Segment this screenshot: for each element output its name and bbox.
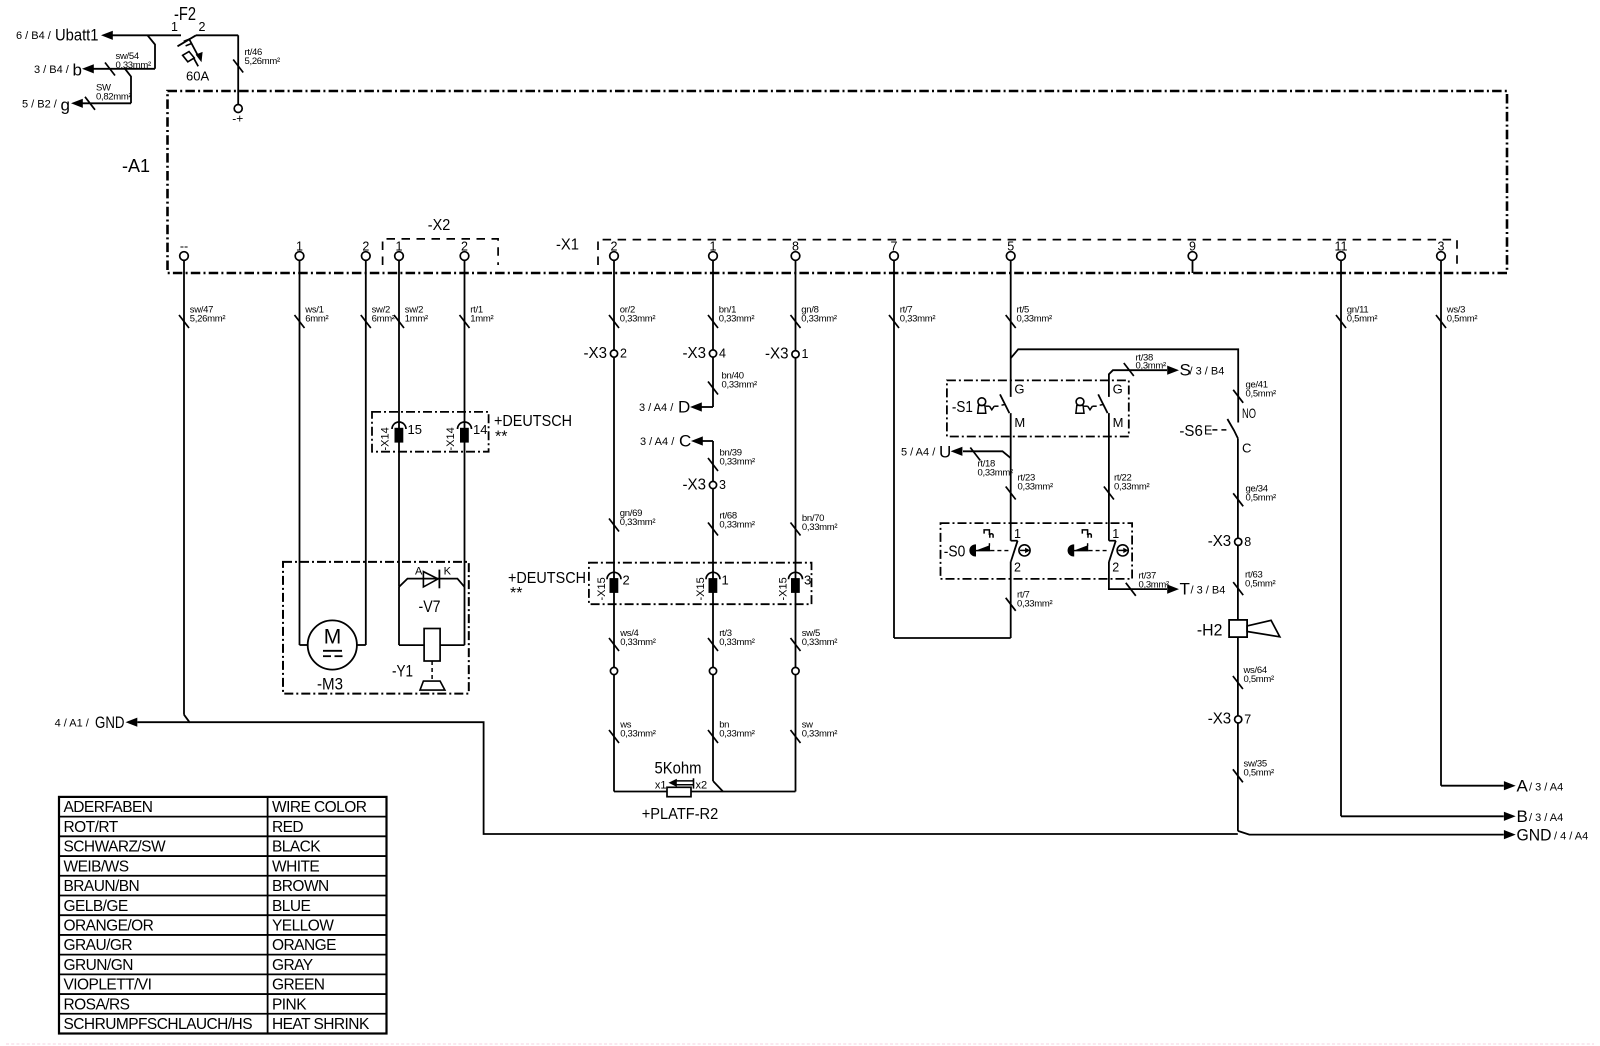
svg-text:0,33mm²: 0,33mm² (1018, 481, 1054, 492)
svg-text:M: M (1014, 415, 1025, 430)
svg-text:0,33mm²: 0,33mm² (802, 522, 838, 533)
svg-text:ROT/RT: ROT/RT (64, 819, 119, 836)
svg-text:2: 2 (362, 240, 369, 254)
svg-text:0,33mm²: 0,33mm² (719, 637, 755, 648)
svg-text:/ 4 / A4: / 4 / A4 (1554, 830, 1588, 842)
svg-text:GELB/GE: GELB/GE (64, 898, 128, 915)
svg-text:M: M (1113, 415, 1124, 430)
svg-text:1: 1 (1014, 527, 1021, 541)
svg-text:15: 15 (408, 422, 422, 437)
svg-text:SCHRUMPFSCHLAUCH/HS: SCHRUMPFSCHLAUCH/HS (64, 1016, 253, 1033)
svg-text:/ 3 / B4: / 3 / B4 (1190, 365, 1225, 377)
svg-text:U: U (939, 443, 951, 462)
svg-text:--: -- (180, 240, 188, 254)
svg-text:-X15: -X15 (695, 577, 707, 600)
svg-text:BLUE: BLUE (272, 898, 311, 915)
svg-text:A: A (415, 565, 423, 577)
svg-text:0,33mm²: 0,33mm² (1017, 313, 1053, 324)
svg-text:C: C (1242, 441, 1251, 456)
svg-text:BLACK: BLACK (272, 839, 321, 856)
svg-text:/ 3 / A4: / 3 / A4 (1529, 812, 1563, 824)
svg-text:3: 3 (804, 572, 811, 587)
svg-text:**: ** (510, 585, 522, 602)
svg-text:PINK: PINK (272, 996, 307, 1013)
svg-text:b: b (73, 61, 82, 80)
svg-text:-X3: -X3 (683, 476, 707, 493)
svg-text:0,33mm²: 0,33mm² (1017, 598, 1053, 609)
svg-text:RED: RED (272, 819, 303, 836)
svg-text:3 / B4 /: 3 / B4 / (34, 64, 70, 76)
svg-text:4: 4 (719, 347, 726, 361)
svg-text:1: 1 (722, 572, 729, 587)
svg-text:ROSA/RS: ROSA/RS (64, 996, 130, 1013)
svg-text:2: 2 (623, 572, 630, 587)
svg-text:HEAT SHRINK: HEAT SHRINK (272, 1016, 370, 1033)
svg-text:0,33mm²: 0,33mm² (722, 379, 758, 390)
svg-text:G: G (1113, 382, 1123, 397)
svg-text:1: 1 (296, 240, 303, 254)
svg-text:0,33mm²: 0,33mm² (900, 313, 936, 324)
svg-text:ORANGE/OR: ORANGE/OR (64, 918, 154, 935)
svg-text:2: 2 (611, 240, 618, 254)
svg-text:GND: GND (1517, 825, 1552, 844)
svg-text:3 / A4 /: 3 / A4 / (640, 436, 675, 448)
svg-text:x2: x2 (696, 780, 708, 792)
svg-text:+PLATF-R2: +PLATF-R2 (642, 806, 719, 823)
svg-text:G: G (1014, 382, 1024, 397)
svg-text:1: 1 (802, 347, 809, 361)
svg-text:0,33mm²: 0,33mm² (720, 456, 756, 467)
svg-text:0,5mm²: 0,5mm² (1347, 313, 1378, 324)
svg-text:0,5mm²: 0,5mm² (1245, 578, 1276, 589)
svg-text:0,33mm²: 0,33mm² (978, 467, 1014, 478)
svg-text:5 / A4 /: 5 / A4 / (901, 447, 936, 459)
svg-text:5: 5 (1007, 240, 1014, 254)
svg-text:M: M (324, 626, 342, 649)
svg-text:0,33mm²: 0,33mm² (620, 637, 656, 648)
svg-text:-X2: -X2 (428, 217, 451, 234)
svg-text:0,33mm²: 0,33mm² (719, 519, 755, 530)
svg-text:T: T (1180, 579, 1190, 598)
svg-text:-S1: -S1 (952, 399, 973, 416)
svg-text:0,33mm²: 0,33mm² (801, 313, 837, 324)
svg-text:A: A (1517, 776, 1529, 795)
svg-text:1: 1 (710, 240, 717, 254)
svg-text:GREEN: GREEN (272, 977, 324, 994)
svg-text:-X1: -X1 (556, 237, 579, 254)
svg-text:0,5mm²: 0,5mm² (1447, 313, 1478, 324)
svg-text:-X14: -X14 (380, 427, 392, 450)
svg-text:1: 1 (396, 240, 403, 254)
svg-text:VIOPLETT/VI: VIOPLETT/VI (64, 977, 152, 994)
svg-text:6 / B4 /: 6 / B4 / (16, 30, 52, 42)
svg-text:-X3: -X3 (683, 345, 707, 362)
svg-text:0,5mm²: 0,5mm² (1244, 674, 1275, 685)
svg-text:4 / A1 /: 4 / A1 / (55, 718, 90, 730)
svg-text:1mm²: 1mm² (470, 313, 493, 324)
svg-text:0,33mm²: 0,33mm² (802, 637, 838, 648)
svg-text:0,33mm²: 0,33mm² (116, 60, 152, 71)
svg-text:8: 8 (792, 240, 799, 254)
svg-text:WHITE: WHITE (272, 858, 319, 875)
svg-text:2: 2 (620, 347, 627, 361)
svg-text:2: 2 (461, 240, 468, 254)
svg-text:**: ** (495, 429, 507, 446)
svg-text:WIRE COLOR: WIRE COLOR (272, 799, 367, 816)
svg-text:0,33mm²: 0,33mm² (620, 728, 656, 739)
svg-text:-X3: -X3 (1208, 711, 1232, 728)
svg-text:+DEUTSCH: +DEUTSCH (494, 413, 572, 430)
svg-text:-X15: -X15 (596, 577, 608, 600)
svg-text:GRAY: GRAY (272, 957, 313, 974)
svg-text:6mm²: 6mm² (372, 313, 395, 324)
svg-text:0,5mm²: 0,5mm² (1246, 492, 1277, 503)
svg-text:BROWN: BROWN (272, 878, 329, 895)
svg-text:-S6: -S6 (1179, 423, 1203, 440)
svg-text:0,33mm²: 0,33mm² (620, 313, 656, 324)
svg-text:2: 2 (1112, 560, 1119, 574)
svg-text:ADERFABEN: ADERFABEN (64, 799, 153, 816)
svg-text:3: 3 (1438, 240, 1445, 254)
svg-text:0,5mm²: 0,5mm² (1246, 388, 1277, 399)
svg-text:7: 7 (891, 240, 898, 254)
svg-text:-X15: -X15 (777, 577, 789, 600)
svg-text:0,33mm²: 0,33mm² (620, 517, 656, 528)
svg-text:/ 3 / A4: / 3 / A4 (1529, 781, 1563, 793)
svg-text:E: E (1204, 424, 1212, 438)
svg-text:-H2: -H2 (1197, 621, 1223, 640)
svg-text:-X3: -X3 (765, 346, 789, 363)
svg-text:ORANGE: ORANGE (272, 937, 336, 954)
svg-text:2: 2 (1014, 560, 1021, 574)
svg-text:0,5mm²: 0,5mm² (1244, 767, 1275, 778)
svg-text:5Kohm: 5Kohm (655, 759, 702, 778)
svg-text:WEIB/WS: WEIB/WS (64, 858, 129, 875)
svg-text:D: D (678, 398, 690, 417)
svg-text:-+: -+ (232, 112, 243, 126)
svg-text:3 / A4 /: 3 / A4 / (639, 402, 674, 414)
svg-text:-X3: -X3 (1208, 533, 1232, 550)
svg-text:0,3mm²: 0,3mm² (1139, 579, 1170, 590)
svg-text:0,33mm²: 0,33mm² (802, 728, 838, 739)
svg-text:YELLOW: YELLOW (272, 918, 334, 935)
svg-text:-V7: -V7 (419, 597, 441, 616)
svg-text:C: C (679, 432, 691, 451)
svg-text:-M3: -M3 (317, 675, 343, 694)
svg-text:-S0: -S0 (944, 544, 966, 561)
svg-text:0,82mm²: 0,82mm² (96, 91, 132, 102)
svg-text:/ 3 / B4: / 3 / B4 (1191, 584, 1226, 596)
svg-text:6mm²: 6mm² (305, 313, 328, 324)
svg-text:NO: NO (1242, 405, 1256, 421)
svg-text:0,33mm²: 0,33mm² (719, 313, 755, 324)
svg-text:Ubatt1: Ubatt1 (55, 26, 99, 45)
svg-text:GRUN/GN: GRUN/GN (64, 957, 133, 974)
svg-text:-X3: -X3 (584, 345, 608, 362)
svg-text:SCHWARZ/SW: SCHWARZ/SW (64, 839, 166, 856)
svg-text:2: 2 (199, 20, 206, 34)
svg-text:1: 1 (171, 20, 178, 34)
svg-text:14: 14 (473, 422, 487, 437)
svg-text:11: 11 (1335, 240, 1348, 254)
svg-text:BRAUN/BN: BRAUN/BN (64, 878, 140, 895)
svg-text:-A1: -A1 (122, 156, 150, 176)
svg-text:GRAU/GR: GRAU/GR (64, 937, 133, 954)
svg-text:0,33mm²: 0,33mm² (719, 728, 755, 739)
svg-text:5,26mm²: 5,26mm² (190, 313, 226, 324)
svg-text:9: 9 (1189, 240, 1196, 254)
svg-text:3: 3 (719, 478, 726, 492)
svg-text:1: 1 (1112, 527, 1119, 541)
svg-text:5,26mm²: 5,26mm² (245, 56, 281, 67)
svg-text:-X14: -X14 (445, 427, 457, 450)
svg-text:GND: GND (95, 713, 125, 732)
svg-text:x1: x1 (655, 780, 667, 792)
svg-text:-Y1: -Y1 (392, 662, 413, 681)
svg-text:5 / B2 /: 5 / B2 / (22, 99, 58, 111)
svg-text:8: 8 (1244, 535, 1251, 549)
svg-text:60A: 60A (186, 69, 209, 84)
svg-text:B: B (1517, 807, 1528, 826)
svg-text:0,33mm²: 0,33mm² (1114, 481, 1150, 492)
svg-text:K: K (444, 565, 452, 577)
svg-text:g: g (61, 96, 70, 115)
svg-text:1mm²: 1mm² (405, 313, 428, 324)
svg-text:7: 7 (1244, 712, 1251, 726)
